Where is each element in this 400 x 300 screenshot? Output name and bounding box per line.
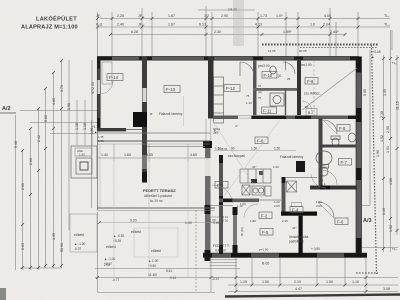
svg-text:2.05: 2.05 [274,204,280,208]
vertical guides bottom [97,212,99,292]
svg-text:F-12: F-12 [226,86,236,91]
svg-text:1.90: 1.90 [376,150,380,157]
terrace west edge [97,131,99,210]
svg-text:ülőfelület 3 padozat: ülőfelület 3 padozat [144,194,172,198]
svg-text:-0.77: -0.77 [112,278,119,282]
svg-text:11.15: 11.15 [396,101,400,110]
svg-text:F-5: F-5 [262,230,269,235]
svg-text:4.65: 4.65 [213,128,217,134]
svg-text:előtető: előtető [74,233,84,237]
chimney near F-7 [296,161,305,172]
terrace north edge lines [97,132,210,134]
F-4 top edge line [285,177,317,179]
svg-text:+0.45: +0.45 [372,50,381,54]
svg-text:90 05: 90 05 [299,49,307,53]
svg-text:1.10: 1.10 [382,208,386,215]
room label F-9 [305,78,318,85]
svg-text:-0.07: -0.07 [74,247,81,251]
svg-text:4,46 m²: 4,46 m² [215,249,226,253]
room label F-6b [335,218,348,225]
right dim numbers (rotated) [363,89,400,232]
bath F-8 WC [331,136,340,140]
svg-text:p=1.90: p=1.90 [259,248,269,252]
partition F10/F11 [253,60,257,115]
svg-text:76: 76 [258,84,262,88]
wall F13/F12 [208,57,214,119]
partition F12 / F10 [285,60,287,70]
bath F-8 washbasin [348,133,356,142]
svg-text:előtető: előtető [106,245,116,249]
bottom dark scan line [225,295,400,297]
svg-text:2.03: 2.03 [21,243,25,250]
wall west of F-4 [282,177,286,212]
svg-text:4.47: 4.47 [295,287,302,291]
svg-text:1.40: 1.40 [101,153,108,157]
svg-text:TL₂: TL₂ [384,23,390,27]
svg-text:21.1: 21.1 [320,182,326,186]
vertical scan streak [233,0,244,46]
svg-text:2.05: 2.05 [316,204,322,208]
vertical guide lines top [97,12,99,56]
svg-text:2.60: 2.60 [29,158,33,165]
svg-text:2.00: 2.00 [386,126,390,133]
svg-text:F-4: F-4 [292,208,299,213]
svg-text:pm/2.00: pm/2.00 [258,64,270,68]
right ticks [382,57,399,250]
dim line row 3 [110,34,345,36]
wall south of top rooms [213,116,358,120]
wall between F-5 and F-6b [299,216,303,254]
svg-text:B 05: B 05 [262,262,269,266]
door arc to F-5 room [318,202,334,218]
svg-text:1.52: 1.52 [389,225,393,232]
door living faint diagonals [212,120,262,198]
svg-text:50 90: 50 90 [60,243,64,252]
svg-text:▲: ▲ [371,55,374,59]
wall top (north) [97,57,359,61]
kitchen dark spots [251,179,257,183]
svg-text:1.0: 1.0 [310,23,315,27]
svg-text:4.65: 4.65 [190,153,197,157]
room label F-6 [255,137,268,144]
shower box F-4 [287,181,297,192]
chimney block [133,112,147,127]
bottom ticks [96,276,368,293]
svg-text:7.28: 7.28 [300,234,304,240]
svg-text:▲ -1.00: ▲ -1.00 [74,242,86,246]
svg-text:12 05: 12 05 [268,49,276,53]
svg-text:1.29: 1.29 [240,280,247,284]
svg-text:1.50: 1.50 [274,147,280,151]
svg-text:fa: 20 m²: fa: 20 m² [150,199,163,203]
svg-text:1.0ᵖ: 1.0ᵖ [276,14,283,18]
faint vertical guides in terrace [113,162,115,277]
room label F-5 [260,229,273,236]
svg-text:Falazott kémény: Falazott kémény [159,112,183,116]
svg-text:F-8: F-8 [339,126,346,131]
svg-text:TL₁: TL₁ [384,14,390,18]
wall hall west (F-3) [219,155,223,254]
svg-text:szo.Hálósz.: szo.Hálósz. [304,92,321,96]
svg-text:1.98: 1.98 [67,103,71,110]
svg-text:B 2: B 2 [308,111,313,115]
svg-text:1.67: 1.67 [168,14,175,18]
svg-text:1.90: 1.90 [79,153,85,157]
svg-text:F-13: F-13 [166,87,176,92]
svg-text:3.08: 3.08 [383,287,390,291]
svg-text:(H): (H) [258,90,262,94]
svg-text:4.00: 4.00 [324,14,331,18]
svg-text:1.80: 1.80 [250,219,256,223]
room label F-2 [259,212,272,219]
svg-text:1.73: 1.73 [260,14,267,18]
svg-text:TL₁: TL₁ [392,61,397,65]
wall south (bottom) [203,253,367,258]
svg-text:44°: 44° [252,165,257,169]
svg-text:1.60: 1.60 [124,153,131,157]
svg-text:8.41: 8.41 [166,269,172,273]
svg-text:4.65: 4.65 [52,98,56,105]
svg-text:1.50: 1.50 [326,280,333,284]
wall F10/F11 vs F9 [297,59,301,115]
horizontal connectors left [20,110,97,112]
svg-text:75: 75 [246,94,250,98]
canopy pillar box [70,214,97,252]
pillar label box [75,148,92,156]
wardrobe F-14 [102,62,112,84]
svg-text:2.15: 2.15 [282,219,288,223]
door arc F-14 [100,81,113,94]
door arc entry into hall [212,185,233,203]
room label F-8 [337,125,350,132]
svg-text:előtető: előtető [131,230,141,234]
door arc into F-2 [244,204,258,218]
svg-text:3.73: 3.73 [60,85,64,92]
svg-text:1.35: 1.35 [98,139,104,143]
bottom dim numbers [148,262,390,292]
svg-text:2.38: 2.38 [380,111,384,118]
svg-text:1.67: 1.67 [168,23,175,27]
room label F-4 [292,203,302,207]
wall center (F14/F13) [142,57,147,183]
svg-text:2.28: 2.28 [117,14,124,18]
svg-text:2.30: 2.30 [214,30,221,34]
canopy rect outline center [134,228,178,257]
svg-text:1.00: 1.00 [273,165,279,169]
svg-text:1.50: 1.50 [251,147,257,151]
svg-text:2.04: 2.04 [323,23,330,27]
dim line row 4 [198,9,255,11]
svg-text:F-14: F-14 [109,75,119,80]
svg-text:F-6: F-6 [257,138,264,143]
svg-text:2.03: 2.03 [104,263,110,267]
svg-text:90 (10): 90 (10) [240,227,244,236]
dashed canopy edge line [195,210,197,291]
svg-text:+ 0.50: + 0.50 [311,247,320,251]
svg-text:1.01: 1.01 [386,146,390,153]
svg-text:6.28: 6.28 [131,30,138,34]
svg-text:▲ -0.92: ▲ -0.92 [113,234,125,238]
svg-text:1.00: 1.00 [213,221,220,225]
hidden beam dashed F9 [313,60,315,115]
svg-text:Falazott kémény: Falazott kémény [280,155,304,159]
svg-text:1/2: 1/2 [204,14,209,18]
svg-text:1.50: 1.50 [215,147,221,151]
svg-text:1.50: 1.50 [90,128,94,134]
svg-text:JF₂₁: JF₂₁ [138,23,145,27]
svg-text:97/2.05: 97/2.05 [91,82,95,94]
svg-text:6.13: 6.13 [199,23,206,27]
room label F-3 [215,182,228,189]
door arc hall-F10 [283,62,295,74]
kitchen upper cabinets F-12 [214,77,224,123]
room label F-13 [164,86,180,93]
svg-text:ALAPRAJZ M=1:100: ALAPRAJZ M=1:100 [21,25,78,31]
svg-text:1.10: 1.10 [246,101,252,105]
svg-text:4.13: 4.13 [255,23,262,27]
top dim numbers row1 [96,8,390,35]
wall F-14 south [97,128,126,131]
wall bedrooms top black bar [281,212,317,216]
svg-text:5.46: 5.46 [14,141,18,148]
left ticks [21,59,63,269]
svg-text:5.05: 5.05 [363,89,367,96]
dim line row 2 [98,26,390,28]
svg-text:1.10: 1.10 [352,280,359,284]
svg-text:1.35: 1.35 [52,233,56,240]
svg-text:szo.Nappali: szo.Nappali [228,154,245,158]
svg-text:F-7: F-7 [341,160,348,165]
svg-text:2.40: 2.40 [117,23,124,27]
washbasin F-7 [316,151,332,165]
porch door size box [208,217,220,223]
WC F-7 [320,165,329,169]
svg-text:2.10: 2.10 [294,280,301,284]
svg-text:75: 75 [258,96,262,100]
svg-text:F₂|1: F₂|1 [96,23,103,27]
left dim numbers (rotated) [21,82,95,252]
svg-text:1.92: 1.92 [380,135,384,142]
9.20 dim line across terrace [99,222,210,224]
svg-text:-0.41: -0.41 [169,276,176,280]
svg-text:F-6: F-6 [337,219,344,224]
svg-text:1.50: 1.50 [185,221,192,225]
room label F-10 [262,72,277,79]
door arc F-7 [323,171,337,185]
svg-text:előtető: előtető [151,249,161,253]
svg-text:9.20: 9.20 [130,219,137,223]
svg-text:26: 26 [287,77,291,81]
svg-text:LAKÓÉPÜLET: LAKÓÉPÜLET [36,15,77,23]
bath F-8 door arc [323,120,337,134]
svg-text:JF₁: JF₁ [96,14,102,18]
svg-text:2.60: 2.60 [21,183,25,190]
svg-text:44°: 44° [292,226,297,230]
small boxed B2 [306,109,317,116]
svg-text:A/2: A/2 [2,106,11,112]
pillar with footing [71,146,97,178]
terrace dim line [97,157,210,159]
svg-text:F-2: F-2 [261,213,268,218]
svg-text:FEDETT T.: FEDETT T. [213,244,230,248]
svg-text:F-11: F-11 [263,108,272,113]
tick marks row1 [96,17,360,36]
svg-text:5.60: 5.60 [44,115,48,122]
door arc hall-kitchen [240,62,254,76]
interior numbers [214,150,296,152]
wall right (east) [356,57,362,257]
svg-text:1.38: 1.38 [75,123,79,130]
porch threshold [210,205,233,207]
svg-text:▲ 1.00: ▲ 1.00 [148,259,158,263]
svg-text:20 10: 20 10 [221,219,228,223]
svg-text:▲: ▲ [94,130,97,134]
bathroom block walls [319,118,323,190]
svg-text:1.10: 1.10 [237,204,243,208]
wall west of living/terrace [205,141,211,261]
porch steps [209,259,237,261]
room label F-11 [262,107,277,114]
svg-text:1.50: 1.50 [262,280,269,284]
svg-text:A/3: A/3 [363,218,372,224]
svg-text:2.44ᵖ: 2.44ᵖ [330,30,339,34]
wall porch east [233,207,237,253]
kitchen counter lower [240,169,271,196]
terrace door opening [205,119,207,141]
svg-text:F-9: F-9 [307,79,314,84]
svg-text:F-3: F-3 [217,183,224,188]
svg-text:90: 90 [231,147,235,151]
svg-text:3.65: 3.65 [146,153,153,157]
svg-text:pm/1.90: pm/1.90 [300,63,312,67]
door arc F9 [302,68,357,110]
svg-text:2.42: 2.42 [37,135,41,142]
svg-text:1.00: 1.00 [383,89,387,96]
wall left (west) [97,57,100,132]
bottom-left corner smudge [0,288,6,300]
room label F-14 [107,74,123,81]
room label F-12 [224,85,240,92]
svg-text:Vendégszoba: Vendégszoba [289,235,309,239]
svg-text:1.30: 1.30 [83,123,87,130]
wall living/bedrooms [219,199,259,203]
svg-text:1.59ᵖ: 1.59ᵖ [283,30,292,34]
svg-text:FEDETT TERASZ: FEDETT TERASZ [143,188,176,193]
door arc below bath block [311,174,326,188]
svg-text:11.60: 11.60 [148,273,157,277]
dim line row 1 [100,18,390,20]
WC F-10 [270,66,276,74]
svg-text:JF₁₁: JF₁₁ [138,14,145,18]
room label F-7 [339,159,352,166]
svg-text:2.90: 2.90 [221,14,228,18]
washbasin F-11 [270,93,284,106]
svg-text:|G: |G [278,74,282,78]
terrace south edge [97,207,215,209]
svg-text:4.80: 4.80 [389,178,393,185]
